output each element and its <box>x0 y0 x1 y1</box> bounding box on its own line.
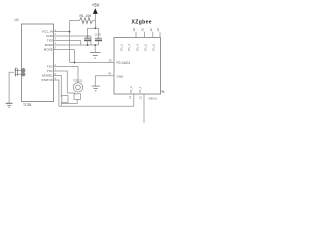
junction dots <box>69 27 97 63</box>
module bottom pin names <box>129 86 142 93</box>
component square A <box>74 94 81 100</box>
resistor R1 <box>80 18 93 24</box>
svg-text:*C3C12: *C3C12 <box>73 78 83 82</box>
svg-text:GND: GND <box>46 34 54 38</box>
ground G3 <box>6 103 13 107</box>
svg-text:TC35: TC35 <box>23 103 31 107</box>
power +5V arrow <box>93 8 98 14</box>
svg-text:+5V: +5V <box>92 2 100 7</box>
wire cap1 stem <box>87 28 89 38</box>
speaker MIC circle <box>73 83 82 92</box>
svg-text:28: 28 <box>132 28 136 31</box>
wire resistor feed <box>70 20 80 22</box>
wire cap2 bottom <box>98 41 100 45</box>
svg-text:TXC: TXC <box>47 65 54 69</box>
pin numbers U1 <box>55 28 57 80</box>
svg-text:GND: GND <box>117 74 125 78</box>
wire pin MODE stub <box>54 49 75 51</box>
svg-text:MODE1: MODE1 <box>42 74 53 78</box>
pin circles XTAL <box>22 69 25 76</box>
svg-text:P0.1/AD1: P0.1/AD1 <box>117 61 131 65</box>
wire audio row3 <box>54 76 62 98</box>
crystal Y1 plates <box>16 68 18 77</box>
wire node to P0.1 <box>70 62 115 64</box>
ground G2 <box>92 86 100 91</box>
ground G1 <box>90 52 100 58</box>
wire audio row1 <box>54 67 79 83</box>
component square B <box>62 96 68 103</box>
svg-text:VCC_IN: VCC_IN <box>42 30 53 34</box>
svg-text:STATUS: STATUS <box>41 78 52 82</box>
wire vertical B <box>73 50 75 63</box>
wire pin43 gnd loop <box>95 76 114 86</box>
svg-text:RXD0: RXD0 <box>45 43 53 47</box>
svg-text:P1_5: P1_5 <box>144 44 148 51</box>
wire audio row4 <box>54 80 59 106</box>
wire pin TXD stub <box>54 40 81 42</box>
power +5V stem <box>95 14 97 29</box>
wire rail <box>88 27 99 29</box>
svg-text:P1_1: P1_1 <box>138 86 142 93</box>
wire resistor out <box>93 20 96 22</box>
svg-text:P1_3: P1_3 <box>127 44 131 51</box>
svg-text:C6 10: C6 10 <box>95 33 102 36</box>
wire pin VCC_IN stub <box>54 31 70 33</box>
wire audio row2 <box>54 71 76 93</box>
wire GND drop <box>90 36 92 45</box>
module top pin names <box>119 44 155 51</box>
svg-text:MODE: MODE <box>44 48 53 52</box>
pin labels U1 right lower <box>41 65 53 83</box>
svg-text:34: 34 <box>156 28 160 31</box>
wire bottom pin2 stub <box>143 94 145 123</box>
wire crystal to ground <box>9 72 14 103</box>
svg-text:P1_6: P1_6 <box>151 44 155 51</box>
wire square A stem <box>61 99 77 103</box>
wire cap2 stem <box>98 28 100 38</box>
svg-text:P1_4: P1_4 <box>135 44 139 51</box>
wire TXD drop <box>80 41 82 46</box>
module XZgbee box <box>114 38 161 95</box>
IC U1 TC35 box <box>22 24 54 102</box>
wire pin GND stub <box>54 35 92 37</box>
wire bottom long <box>59 94 134 106</box>
pin labels U1 right upper <box>42 30 54 52</box>
wire square B stem <box>60 103 62 107</box>
module top pin stubs <box>136 32 160 38</box>
crystal wires <box>14 69 21 71</box>
svg-text:TXC: TXC <box>47 69 54 73</box>
wire cap1 bottom <box>87 41 89 45</box>
svg-text:32: 32 <box>149 28 153 31</box>
wire pin RXD long <box>54 44 99 46</box>
capacitor C1 <box>84 38 91 40</box>
module top pin numbers <box>132 28 160 31</box>
wire ground stem <box>94 45 96 52</box>
wire vertical A <box>69 21 71 63</box>
svg-text:M9XXL: M9XXL <box>149 97 158 101</box>
capacitor C2 <box>95 38 102 40</box>
svg-text:P1_2: P1_2 <box>119 44 123 51</box>
svg-text:XZgbee: XZgbee <box>132 19 152 25</box>
svg-text:10K: 10K <box>86 14 93 18</box>
svg-text:P1_0: P1_0 <box>129 86 133 93</box>
module right pin stub <box>161 90 165 92</box>
svg-text:R1: R1 <box>80 14 84 18</box>
svg-text:TXD: TXD <box>47 39 54 43</box>
svg-text:30: 30 <box>141 28 145 31</box>
svg-text:U1: U1 <box>15 18 19 22</box>
